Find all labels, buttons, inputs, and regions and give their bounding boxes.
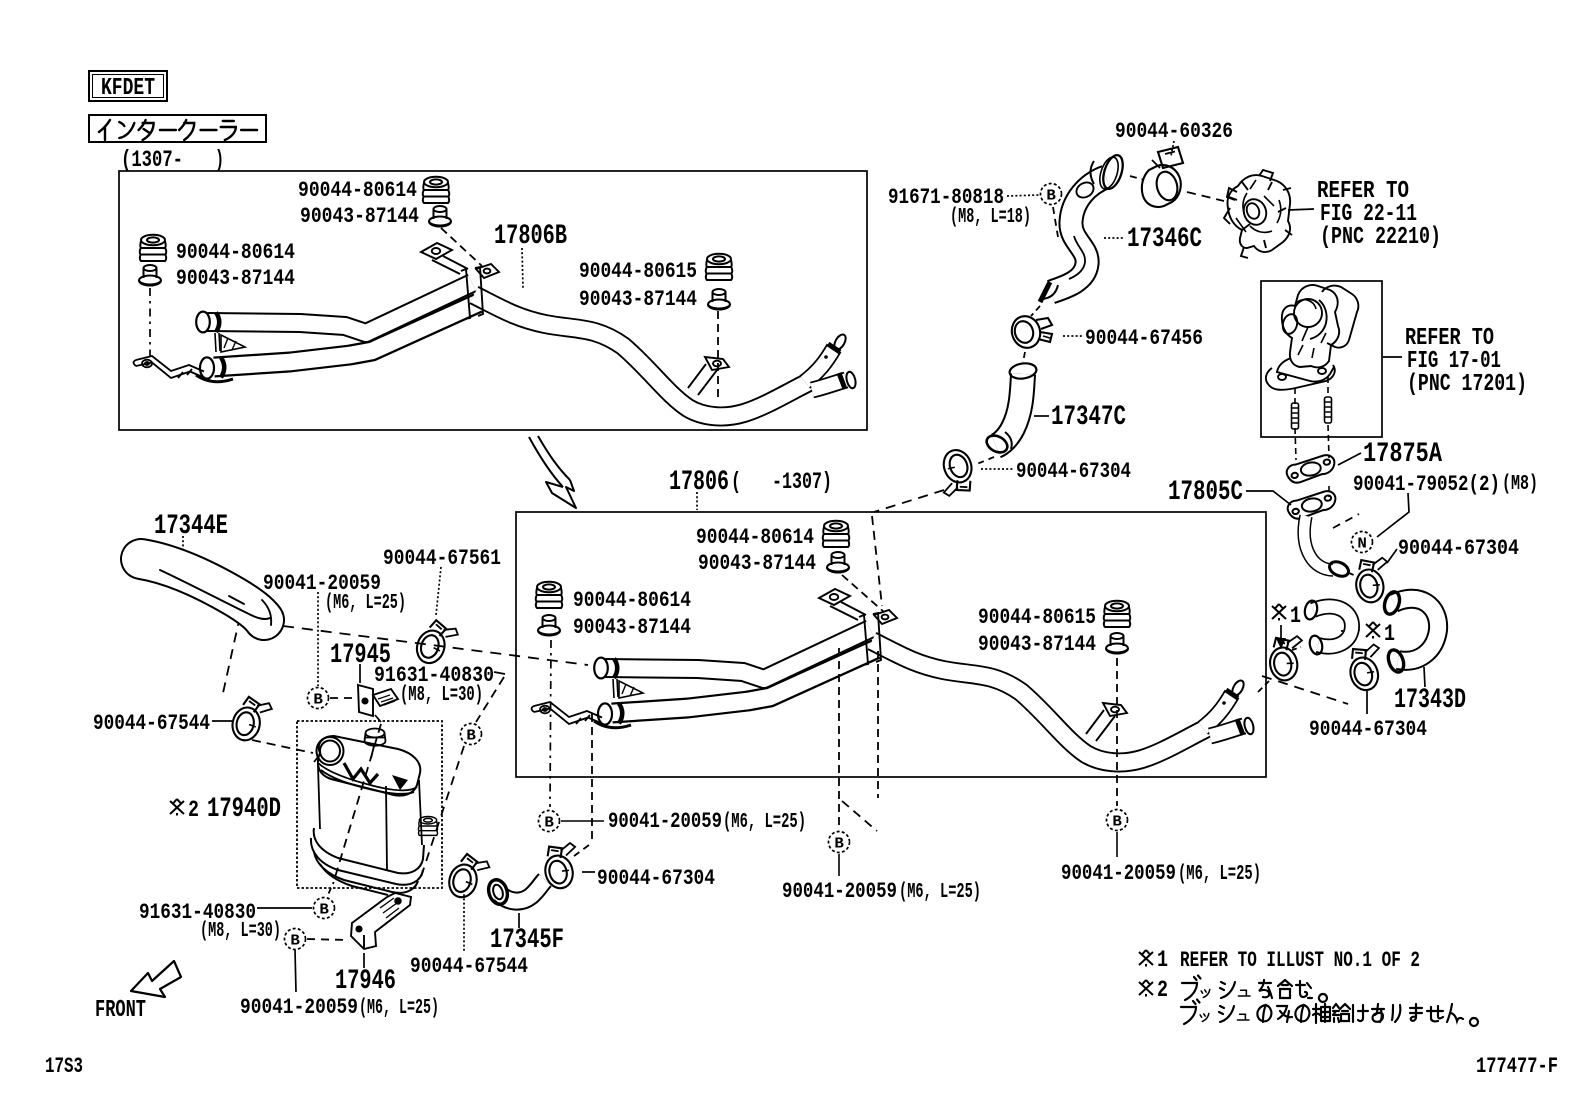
- hose 17344E: [141, 559, 271, 625]
- dash inside IC box diagonal: [333, 724, 381, 884]
- leader dash mid top bushing to tab: [842, 575, 884, 612]
- svg-text:90041-20059: 90041-20059: [608, 808, 722, 834]
- bushing 90043-87144 (top box right): [708, 289, 730, 310]
- svg-text:90044-67544: 90044-67544: [410, 953, 528, 979]
- right bracket tab w/ hole: [688, 357, 729, 395]
- dash chain clamp 67304a to mid box pipe tab: [874, 490, 944, 512]
- gasket 17875A: [1285, 454, 1337, 484]
- leader dotted 17346C: [1104, 237, 1125, 239]
- svg-text:90044-80615: 90044-80615: [978, 604, 1096, 630]
- stud dashes: [1294, 388, 1296, 404]
- grommet 90044-80615 (mid box right): [1104, 601, 1131, 627]
- leader solid 17343D: [1424, 667, 1425, 687]
- svg-text:17806: 17806: [669, 467, 729, 498]
- svg-text:17805C: 17805C: [1168, 477, 1243, 508]
- stud 91631 (right in fig box): [1325, 397, 1332, 423]
- clamp 90044-67304 (c bottom mid): [539, 840, 585, 891]
- svg-text:90044-67304: 90044-67304: [1309, 716, 1427, 742]
- svg-text:90043-87144: 90043-87144: [978, 631, 1096, 657]
- leader dotted 90044-67544-2: [463, 890, 465, 952]
- flange+pipe 17805C: [1286, 490, 1338, 520]
- svg-text:(M6, L=25): (M6, L=25): [1178, 863, 1261, 886]
- svg-text:): ): [215, 147, 224, 173]
- stud 91631 (left in fig box): [1292, 403, 1299, 429]
- leader solid 17805C: [1246, 491, 1291, 505]
- grommet 90044-80615 (top box right): [706, 254, 733, 280]
- KFDET header box: [89, 71, 167, 101]
- svg-text:17343D: 17343D: [1394, 685, 1466, 716]
- dash B 91671 down: [1053, 207, 1058, 237]
- leader solid throttle to REFER: [1288, 209, 1314, 210]
- top pipe box 17806B: [119, 171, 867, 430]
- dash B 91631 down to bracket 17946: [420, 746, 464, 880]
- U-hose (x1): [1303, 599, 1352, 655]
- leader 91631 upper: solid + dash to B: [494, 672, 505, 674]
- svg-text:1: 1: [1384, 621, 1395, 647]
- svg-text:17346C: 17346C: [1127, 224, 1202, 255]
- svg-text:17344E: 17344E: [154, 511, 228, 542]
- dash clamp to tank inlet: [252, 740, 313, 753]
- svg-text:90043-87144: 90043-87144: [176, 265, 295, 291]
- svg-text:(PNC 17201): (PNC 17201): [1407, 371, 1527, 398]
- leader dotted 17806B: [522, 248, 523, 288]
- hose 17345F: [486, 877, 545, 906]
- bolt circle B (90041 17946): [285, 929, 306, 950]
- pipe 17806 assembly (middle box): [532, 589, 1256, 762]
- center bracket strap over pipes: [215, 243, 499, 352]
- svg-text:17806B: 17806B: [494, 221, 567, 252]
- bolt circle B (91631 lower): [314, 898, 335, 919]
- hose 17347C: [984, 362, 1038, 456]
- leader dotted 90044-67561: [436, 567, 441, 615]
- leader dash mid center x=839: [838, 648, 840, 828]
- dash 17346C end to clamp: [1031, 306, 1040, 316]
- grommet 90044-80614 (top box top): [423, 177, 450, 203]
- upper branch tube right end: [805, 333, 848, 382]
- lower-front pipe left section: [214, 303, 478, 367]
- bolt circle B (91671): [1041, 184, 1062, 205]
- leader dotted 91671 to B: [1007, 195, 1039, 196]
- lower-left mounting strap bracket: [134, 356, 205, 378]
- leader solid 91631 lower to B: [257, 907, 312, 909]
- clamp 90044-67544 (1): [230, 695, 274, 745]
- svg-text:90044-67304: 90044-67304: [1016, 458, 1131, 484]
- bolt circle B (90041 left): [308, 688, 329, 709]
- dash x1 clamp to U-hose: [1292, 647, 1301, 650]
- svg-text:90041-20059: 90041-20059: [240, 994, 358, 1020]
- leader solid B right to label: [561, 820, 604, 822]
- dash clamp b to pipe end: [1349, 573, 1356, 576]
- svg-text:90043-87144: 90043-87144: [573, 614, 691, 640]
- leader dash right bushing down (top box): [717, 311, 719, 399]
- svg-text:90044-67561: 90044-67561: [383, 545, 501, 571]
- grommet 90044-80614 (mid box left): [536, 582, 563, 608]
- leader dash mid right bushing down through tab: [1116, 658, 1118, 806]
- intercooler tank 17940D: [311, 729, 424, 896]
- dash clamp 60326 to throttle: [1187, 192, 1224, 201]
- intercooler dotted box 17940D: [297, 721, 442, 888]
- leader solid 90044-67304d: [1366, 690, 1368, 714]
- svg-text:(1307-: (1307-: [121, 147, 183, 173]
- pipe right S-section: [474, 295, 809, 416]
- grommet loose (intercooler box): [418, 816, 437, 835]
- svg-text:90041-20059: 90041-20059: [782, 878, 897, 904]
- svg-text:(M6, L=25): (M6, L=25): [359, 997, 439, 1020]
- REFER TO FIG 17-01 box: [1261, 281, 1382, 437]
- dash pipe ends to clamp d: [1262, 676, 1348, 704]
- nut circle N (90041-79052): [1352, 532, 1373, 553]
- dash pipe to x1 clamp: [1258, 681, 1269, 692]
- leader dash mid center x=878 + diagonal: [877, 651, 879, 798]
- hose 17343D: [1382, 590, 1438, 674]
- bushing 90043-87144 (mid box top): [827, 552, 849, 573]
- dash 17347C to clamp a: [977, 457, 994, 464]
- dash B to bracket 17945: [330, 697, 355, 699]
- svg-text:90044-80614: 90044-80614: [176, 239, 295, 265]
- leader solid 17347C: [1034, 415, 1049, 417]
- svg-text:1: 1: [1290, 603, 1301, 629]
- svg-text:(PNC 22210): (PNC 22210): [1320, 224, 1441, 251]
- svg-text:(M6, L=25): (M6, L=25): [899, 881, 981, 904]
- svg-text:2: 2: [188, 797, 199, 823]
- leader solid 17875A: [1338, 453, 1361, 465]
- svg-text:90043-87144: 90043-87144: [300, 203, 419, 229]
- leader solid B center down: [838, 854, 840, 876]
- svg-text:90044-80614: 90044-80614: [298, 177, 417, 203]
- bushing 90043-87144 (mid box left): [538, 615, 560, 636]
- svg-text:90044-80614: 90044-80614: [573, 587, 691, 613]
- leader dash top bushing to tab (top box): [441, 228, 482, 266]
- svg-text:(M6, L=25): (M6, L=25): [325, 592, 406, 615]
- bolt circle B (91631 upper): [461, 724, 482, 745]
- dash N to flange: [1333, 514, 1359, 528]
- svg-text:90044-67304: 90044-67304: [1398, 535, 1519, 561]
- clamp x1 (right): [1266, 634, 1309, 683]
- leader solid B3 down to label: [295, 950, 296, 992]
- clamp 90044-67456: [1008, 312, 1052, 351]
- svg-text:2: 2: [1157, 977, 1168, 1003]
- clamp 90044-67304 (a top right): [931, 446, 979, 499]
- pipe 17806B assembly (top box): [134, 243, 858, 416]
- leader dotted 17806: [696, 492, 698, 510]
- note x2 japanese line2: bush not supplied separately: [1181, 1007, 1196, 1024]
- svg-text:90044-67304: 90044-67304: [597, 865, 715, 891]
- label x1 right-1: [1272, 604, 1286, 621]
- bolt circle B (mid box center): [829, 832, 850, 853]
- bushing 90043-87144 (mid box right): [1106, 633, 1128, 654]
- svg-text:90041-20059: 90041-20059: [1061, 860, 1176, 886]
- note x2 line1: [1139, 980, 1153, 997]
- svg-text:(M8, L=30): (M8, L=30): [400, 684, 483, 707]
- svg-text:(: (: [731, 469, 741, 495]
- middle pipe box 17806: [516, 512, 1266, 777]
- clamp 90044-67304 (b right): [1351, 555, 1395, 605]
- svg-text:90044-60326: 90044-60326: [1115, 118, 1233, 144]
- intercooler katakana box: [89, 115, 266, 142]
- svg-text:(M8, L=30): (M8, L=30): [200, 920, 281, 943]
- throttle body (FIG 22-11): [1224, 170, 1292, 258]
- svg-text:17S3: 17S3: [45, 1054, 83, 1079]
- svg-text:90044-67456: 90044-67456: [1085, 325, 1203, 351]
- leader solid 90044-67304b: [1387, 549, 1397, 563]
- clamp 90044-67304 (d right low): [1343, 641, 1390, 693]
- arrow x1 to clamp: [1280, 625, 1282, 641]
- dash hose to clamp 67544-1: [223, 616, 240, 693]
- svg-text:(M8, L=18): (M8, L=18): [950, 206, 1031, 229]
- svg-text:REFER TO ILLUST NO.1 OF 2: REFER TO ILLUST NO.1 OF 2: [1180, 948, 1420, 973]
- svg-text:17940D: 17940D: [207, 794, 281, 825]
- bushing 90043-87144 (top box top): [429, 206, 451, 227]
- leader dash mid box left bushing down to B: [550, 640, 551, 807]
- solid bracket17945 to box: [375, 715, 381, 722]
- svg-text:90041-79052(2): 90041-79052(2): [1353, 471, 1500, 497]
- leader solid 17345F: [518, 913, 520, 928]
- svg-text:90044-80615: 90044-80615: [579, 258, 697, 284]
- leader solid figbox to REFER17-01: [1383, 356, 1402, 358]
- svg-text:17345F: 17345F: [490, 925, 564, 956]
- leader solid B right down: [1116, 832, 1118, 857]
- leader dash-dot top box left bushing to strap: [149, 288, 151, 356]
- leader dash mid box x=592 down to clamp: [591, 714, 593, 840]
- dash hose to clamp 60326: [1130, 176, 1144, 180]
- bracket 17945: [358, 685, 398, 716]
- dash B3 to bracket 17946: [307, 939, 347, 940]
- svg-text:17875A: 17875A: [1363, 439, 1442, 470]
- leader solid 17945: [359, 664, 361, 683]
- left open end collars: [196, 312, 233, 382]
- leader dotted 90044-67304a: [981, 468, 1013, 470]
- svg-text:KFDET: KFDET: [101, 75, 155, 102]
- upper-rear pipe left section: [207, 283, 472, 333]
- note x1 REFER TO ILLUST: [1139, 950, 1153, 967]
- connector clamp c to line: [574, 845, 589, 856]
- leader dotted 17344E: [182, 536, 184, 556]
- turbocharger (FIG 17-01 box): [1266, 285, 1358, 390]
- bolt circle B (mid box left): [539, 811, 560, 832]
- svg-text:17946: 17946: [335, 966, 396, 997]
- clamp 90044-67561: [413, 617, 460, 669]
- leader dotted 90041-20059 to B: [317, 592, 319, 686]
- FRONT arrow: [131, 961, 181, 997]
- clamp 90044-67544 (2): [446, 851, 492, 902]
- svg-text:1: 1: [1157, 947, 1168, 973]
- svg-text:90043-87144: 90043-87144: [698, 550, 816, 576]
- label x2 17940D: [170, 799, 184, 816]
- leader dotted 90044-67456: [1063, 335, 1083, 337]
- svg-text:(M8): (M8): [1502, 473, 1538, 496]
- svg-text:90044-67544: 90044-67544: [93, 710, 210, 736]
- bushing 90043-87144 (top box left): [139, 265, 161, 286]
- leader dotted 90044-60326: [1171, 141, 1174, 156]
- leader solid 17946: [363, 953, 365, 968]
- katakana intercooler (in box): [99, 120, 257, 140]
- leader dotted x1-2: [1341, 630, 1362, 631]
- dash clamp to 17347C: [1023, 352, 1025, 362]
- svg-text:(M6, L=25): (M6, L=25): [723, 811, 806, 834]
- svg-text:90044-80614: 90044-80614: [696, 524, 814, 550]
- hose 17346C: [1040, 153, 1126, 302]
- svg-text:-1307): -1307): [772, 469, 832, 495]
- grommet 90044-80614 (top box left): [140, 235, 167, 261]
- long dash 17344E to pipe end through clamp 67561: [283, 626, 588, 665]
- bracket 17946: [351, 893, 411, 949]
- clamp 90044-60326: [1142, 147, 1183, 207]
- curved arrow between boxes: [529, 436, 576, 508]
- lower branch tube right end: [812, 371, 857, 390]
- bolt circle B (mid box right): [1107, 810, 1128, 831]
- leader solid 90041-79052 to N: [1377, 493, 1409, 537]
- svg-text:177477-F: 177477-F: [1476, 1054, 1558, 1079]
- note x2 japanese line1: bush included: [1182, 983, 1197, 1000]
- leader solid 90044-67544-1: [212, 720, 232, 722]
- svg-text:FRONT: FRONT: [95, 997, 146, 1024]
- svg-text:17347C: 17347C: [1051, 402, 1126, 433]
- svg-text:90043-87144: 90043-87144: [579, 286, 697, 312]
- grommet 90044-80614 (mid box top): [823, 521, 850, 547]
- label x1 right-2: [1366, 622, 1380, 639]
- leader solid clamp c to label: [582, 871, 595, 873]
